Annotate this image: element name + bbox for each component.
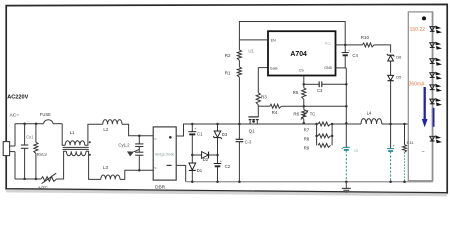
wire: L1 lower winding down to L3 line (86, 151, 101, 179)
svg-text:RVLV: RVLV (37, 152, 48, 157)
wire: R10 to D6 (374, 45, 390, 53)
svg-text:~: ~ (422, 149, 425, 155)
ground (output) (345, 182, 347, 188)
wire: L4 to LED panel (382, 123, 409, 125)
connector J1 (AC input) (3, 142, 9, 156)
ground (Cy midpoint) (134, 149, 140, 151)
wire: DBR - output down to return bus (176, 165, 186, 181)
highlighted wire segment (blue) (432, 108, 435, 127)
svg-text:EN: EN (271, 39, 276, 43)
bridge rectifier DBR (153, 127, 176, 180)
wire: connector bottom pin down to bottom AC line (14, 152, 16, 179)
svg-text:C5: C5 (354, 149, 358, 153)
LED panel box (408, 12, 433, 181)
svg-text:AC220V: AC220V (7, 94, 28, 100)
node (panel input) (422, 16, 426, 20)
wire: R1 down across HV rail to C-3 (238, 77, 240, 139)
svg-text:R4: R4 (272, 110, 278, 115)
resistor R8 (318, 134, 331, 138)
svg-text:C2: C2 (225, 164, 231, 169)
svg-text:Cy1,2: Cy1,2 (118, 142, 130, 147)
bank left bus bar (316, 124, 318, 145)
wire: L3 to DBR AC input (lower) (120, 170, 153, 179)
wire: DBR + output up to HV rail (176, 124, 316, 136)
svg-text:C-3: C-3 (245, 140, 252, 145)
svg-text:R2: R2 (225, 53, 231, 58)
LED D2 (430, 43, 435, 47)
wire: D5 down to HV rail (390, 81, 392, 124)
svg-text:D5: D5 (396, 74, 402, 79)
svg-text:L3: L3 (103, 165, 108, 170)
svg-text:R3: R3 (261, 95, 267, 100)
svg-text:Bridge Diode: Bridge Diode (155, 152, 174, 156)
svg-text:C3: C3 (317, 88, 323, 93)
wire: Vcc pin to C4/R10 node (336, 44, 363, 46)
wire: top AC line from connector to fuse (15, 123, 44, 125)
wire: bottom AC line from connector to NTC (15, 178, 41, 180)
svg-text:TC: TC (310, 111, 316, 116)
svg-text:+: + (220, 159, 222, 163)
svg-text:FUSE: FUSE (40, 112, 51, 117)
wire: GND pin to ground column (336, 67, 347, 69)
svg-text:+: + (194, 127, 196, 131)
svg-text:R6: R6 (293, 112, 299, 117)
svg-text:~: ~ (154, 167, 157, 172)
svg-text:360mA: 360mA (409, 82, 426, 88)
LED D6 (430, 99, 435, 103)
svg-text:AC~: AC~ (10, 113, 20, 119)
wire: HV rail bank to L4 (332, 123, 361, 125)
LED D5 (430, 85, 435, 89)
L1 core lines (63, 146, 89, 148)
svg-text:C4: C4 (352, 53, 358, 58)
svg-text:D3: D3 (222, 132, 228, 137)
bank right bus bar (331, 124, 333, 145)
svg-text:~: ~ (154, 138, 157, 143)
svg-text:R8: R8 (304, 136, 310, 141)
svg-text:R9: R9 (304, 146, 310, 151)
wire: L1 upper winding to L2 (85, 124, 103, 145)
svg-text:DBR: DBR (155, 185, 166, 191)
LED D7 (430, 136, 435, 140)
wire: IC Gate pin to R3 (258, 67, 268, 69)
svg-text:NTC: NTC (38, 185, 48, 190)
wire: gate lead from R3/R4 node (257, 106, 259, 117)
svg-text:L1: L1 (70, 130, 75, 135)
svg-text:150.22: 150.22 (410, 27, 426, 33)
svg-text:R7: R7 (304, 127, 310, 132)
svg-text:L4: L4 (367, 111, 372, 116)
svg-text:R1: R1 (225, 70, 231, 75)
resistor R9 (318, 143, 331, 147)
resistor R7 (in HV rail) (318, 122, 331, 126)
wire: NTC to L1 lower winding (57, 151, 67, 179)
return bus (bottom) (186, 181, 433, 183)
LED D3 (430, 59, 435, 63)
wire: C5 to ground (dashed) (345, 150, 347, 181)
wire: top AC line from fuse to L1 (53, 123, 62, 125)
svg-text:D1: D1 (197, 168, 203, 173)
svg-text:A704: A704 (290, 51, 307, 58)
wire: R4 to GND column (281, 105, 346, 107)
LED D1 (430, 27, 435, 31)
wire: L2 to DBR AC input (upper) (122, 124, 153, 136)
wire: connector top pin up to top AC line (14, 124, 16, 146)
LED string wire (panel right edge) (431, 12, 433, 182)
svg-text:CS: CS (299, 68, 305, 72)
svg-text:GND: GND (324, 66, 332, 70)
wire: EN pin to R2/R1 divider (239, 39, 268, 41)
current flow arrow (blue) (424, 87, 426, 120)
svg-text:C1: C1 (197, 132, 203, 137)
svg-text:Q1: Q1 (249, 129, 256, 134)
wire: top link (R2 column to Vcc node) (239, 22, 345, 51)
svg-text:D6: D6 (396, 55, 402, 60)
wire: top AC line into L1 upper winding (62, 124, 65, 146)
svg-text:VCC: VCC (325, 41, 331, 45)
wire: CS pin down (303, 76, 305, 88)
svg-text:L2: L2 (103, 127, 108, 132)
L1 phasing dots (89, 141, 91, 143)
fuse F1 (44, 120, 53, 124)
svg-text:Gate: Gate (270, 66, 278, 70)
svg-text:R5: R5 (293, 90, 299, 95)
svg-text:R10: R10 (361, 35, 370, 40)
svg-text:Cx1: Cx1 (26, 135, 34, 140)
svg-text:U1: U1 (248, 48, 254, 53)
LED D4 (430, 73, 435, 77)
